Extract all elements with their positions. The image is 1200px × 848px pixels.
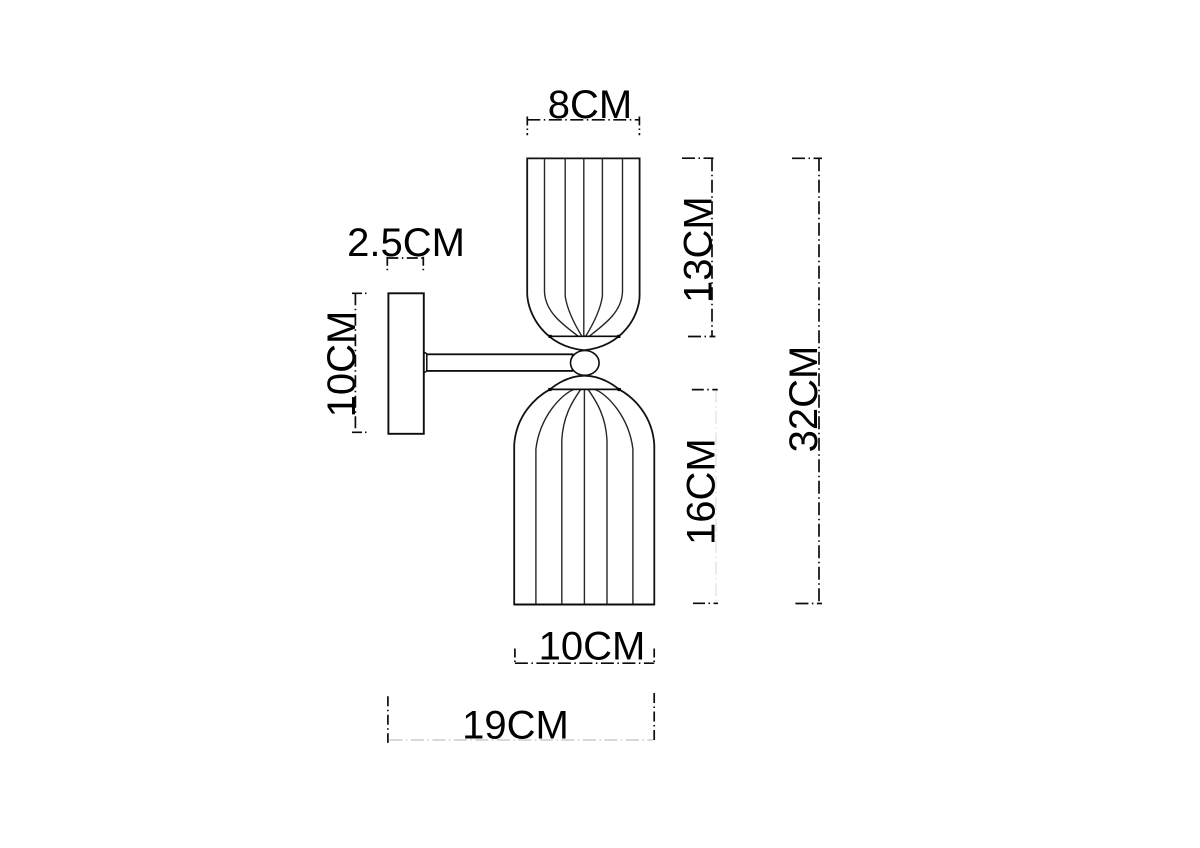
- dimension 32CM text: [782, 346, 826, 453]
- dimension 16CM ticks: [692, 390, 718, 604]
- dimension 8CM text: [548, 83, 632, 127]
- svg-text:16CM: 16CM: [680, 438, 724, 545]
- svg-text:13CM: 13CM: [677, 196, 721, 303]
- dimension 10CM bottom text: [539, 625, 646, 669]
- dimension 19CM text: [462, 704, 569, 748]
- dimension 32CM line: [792, 158, 822, 603]
- dimension 13CM text: [677, 196, 721, 303]
- dimension 19CM line (faint): [389, 739, 653, 741]
- dimension 10CM left text: [320, 311, 364, 418]
- svg-text:10CM: 10CM: [320, 311, 364, 418]
- top shade ribs: [545, 158, 623, 336]
- svg-text:19CM: 19CM: [462, 704, 569, 748]
- top shade rim end dots: [549, 335, 621, 338]
- dimension 2.5CM text: [347, 221, 465, 265]
- bottom shade ribs: [536, 390, 633, 605]
- dimension 19CM left extension line: [387, 696, 389, 743]
- bottom shade bottom line: [514, 604, 654, 606]
- wall plate: [388, 293, 423, 434]
- bottom shade collar end dots: [548, 388, 621, 391]
- dimension 16CM text: [680, 438, 724, 545]
- dimension 16CM line (faint): [715, 390, 717, 604]
- svg-text:10CM: 10CM: [539, 625, 646, 669]
- dimension 13CM line: [682, 158, 715, 336]
- dimension 10CM bottom line: [515, 649, 654, 666]
- top shade rim line: [550, 335, 619, 337]
- ball joint: [571, 351, 600, 376]
- dimension 8CM line: [527, 117, 639, 136]
- shared right extension line: [653, 649, 655, 743]
- dimension 10CM left line: [352, 293, 369, 432]
- dimension 2.5CM line: [387, 257, 423, 274]
- top shade body: [527, 158, 639, 350]
- mounting arm: [426, 354, 573, 371]
- arm bracket at wall plate: [423, 353, 427, 372]
- svg-text:2.5CM: 2.5CM: [347, 221, 465, 265]
- bottom shade collar line: [550, 388, 619, 390]
- bottom shade body: [514, 376, 654, 605]
